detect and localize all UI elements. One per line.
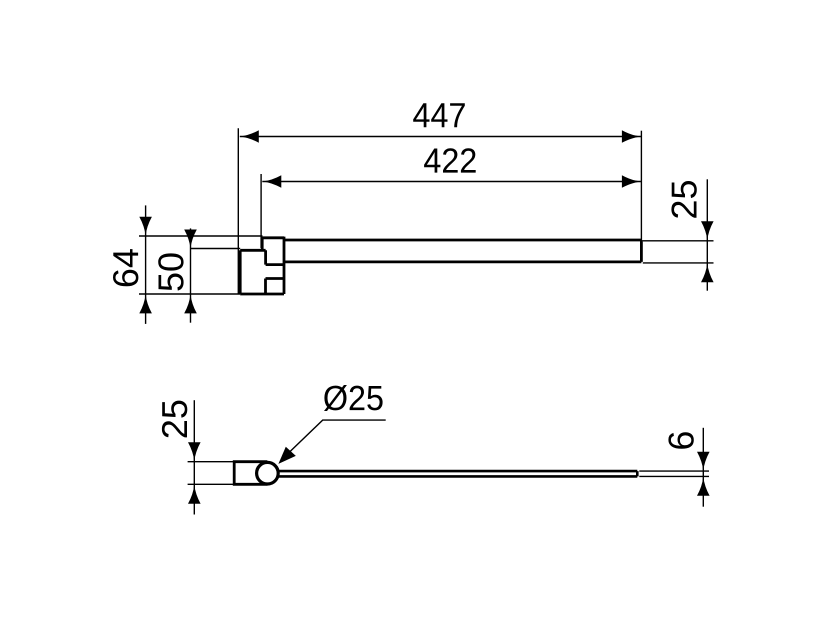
extension line 64/50 bottom <box>139 293 240 295</box>
extension line 447/422 right <box>640 131 642 240</box>
arrow 25 right bottom <box>701 263 714 282</box>
arrow 50 top <box>184 230 197 249</box>
arrow 6 top <box>697 452 710 471</box>
dimension line 50 <box>190 228 192 322</box>
extension lines 6 right <box>639 470 709 472</box>
extension line 64 top <box>139 235 263 237</box>
arrow 25 right top <box>701 221 714 240</box>
bottom view: bracket plate (top view) <box>234 462 267 485</box>
dimension text 64 <box>113 249 138 286</box>
extension line 447 left <box>237 128 239 294</box>
dimension line 25 left <box>193 400 195 514</box>
top view: towel bar rail (side view outline) <box>283 240 641 262</box>
arrow 447 right <box>622 130 641 143</box>
dimension text 6 <box>668 432 693 449</box>
extension line 422 left <box>260 174 262 248</box>
arrow 447 left <box>240 130 259 143</box>
extension lines 25 right <box>643 240 714 242</box>
arrow 422 left <box>262 175 281 188</box>
extension line 50 top <box>190 248 240 250</box>
dimension line 422 <box>262 181 641 183</box>
arrow 50 bottom <box>184 294 197 313</box>
dimension text 447 <box>413 103 465 127</box>
arrow 64 bottom <box>139 294 152 313</box>
arrow 422 right <box>622 175 641 188</box>
leader line Ø25 <box>282 420 386 460</box>
dimension text 422 <box>424 148 476 172</box>
arrow 25 left top <box>188 442 201 461</box>
bottom view: post circle Ø25 <box>257 462 279 484</box>
dimension text 25 (bar height) <box>671 181 696 218</box>
dimension text 50 <box>158 253 183 290</box>
dimension line 25 right <box>706 179 708 290</box>
arrow 64 top <box>139 217 152 236</box>
dimension text Ø25 <box>324 385 383 411</box>
dimension line 64 <box>145 205 147 324</box>
arrow 25 left bottom <box>188 485 201 504</box>
leader arrow Ø25 <box>278 447 295 464</box>
extension lines 25 left (bottom view) <box>188 461 235 463</box>
arrow 6 bottom <box>697 477 710 496</box>
dimension text 25 (bracket width) <box>162 401 187 438</box>
dimension line 6 <box>702 428 704 507</box>
top view: wall bracket outline <box>240 237 284 294</box>
bottom view: rail strip (top view) <box>278 471 638 476</box>
dimension line 447 <box>240 136 641 138</box>
